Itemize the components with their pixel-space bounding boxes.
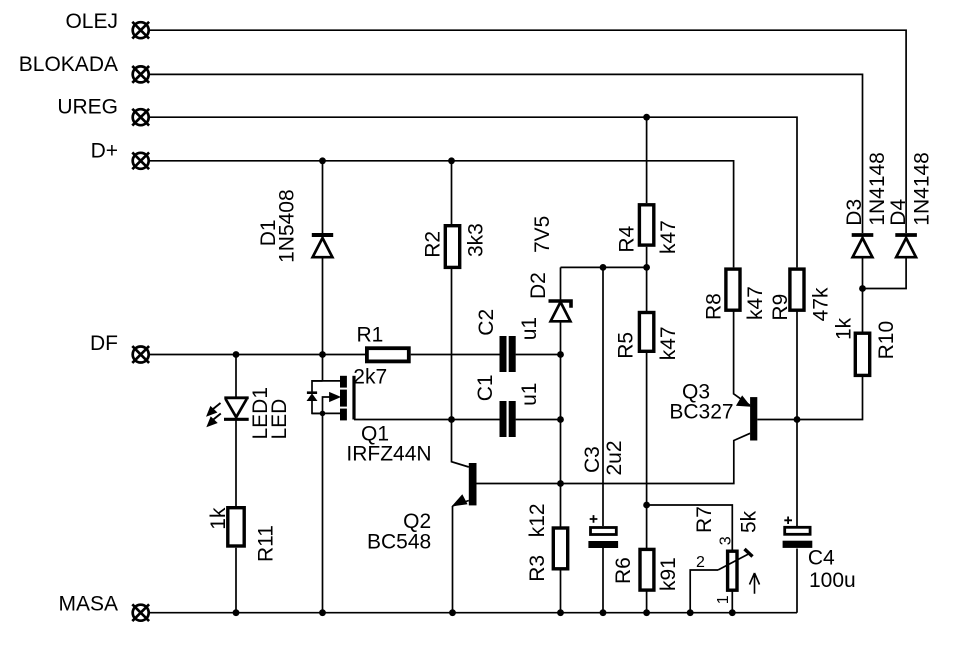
terminal D+ xyxy=(91,139,150,169)
wire Q2 base xyxy=(477,483,561,485)
junction node267 C3 xyxy=(600,264,607,271)
svg-text:D2: D2 xyxy=(527,272,550,299)
terminal UREG xyxy=(57,95,149,125)
svg-text:MASA: MASA xyxy=(58,593,118,616)
wire LED branch vertical xyxy=(235,355,237,613)
junction MASA x732 xyxy=(729,609,736,616)
wire R1 to C2 xyxy=(411,354,500,356)
wire Q2 collector xyxy=(452,420,469,468)
svg-text:1k: 1k xyxy=(833,317,856,340)
svg-text:OLEJ: OLEJ xyxy=(65,10,118,33)
svg-text:D3: D3 xyxy=(843,199,866,226)
junction D+ x322 xyxy=(319,157,326,164)
wire R3 bottom to MASA xyxy=(560,570,562,613)
svg-text:k47: k47 xyxy=(657,326,680,360)
junction Q2 base node xyxy=(557,480,564,487)
svg-text:1k: 1k xyxy=(207,507,230,530)
terminal DF xyxy=(90,332,149,363)
svg-text:R6: R6 xyxy=(612,557,635,584)
svg-text:k47: k47 xyxy=(657,220,680,254)
terminal OLEJ xyxy=(65,10,149,39)
resistor R6 k91 xyxy=(612,549,680,591)
junction MASA x603 xyxy=(600,609,607,616)
wire D+ rail xyxy=(149,161,734,268)
potentiometer R7 5k xyxy=(693,506,761,604)
wire R9 C4 vertical xyxy=(796,312,798,613)
svg-text:k91: k91 xyxy=(657,557,680,591)
electrolytic capacitor C3 2u2 xyxy=(581,440,626,548)
svg-text:7V5: 7V5 xyxy=(531,216,554,253)
wire Q1 source to MASA xyxy=(322,413,324,612)
wire C1 right to node xyxy=(516,419,561,421)
svg-text:R4: R4 xyxy=(616,225,639,252)
wire C2 right to node xyxy=(516,354,561,356)
svg-text:R9: R9 xyxy=(769,294,792,321)
electrolytic capacitor C4 100u xyxy=(783,517,856,593)
svg-text:R7: R7 xyxy=(693,506,716,533)
wire UREG rail xyxy=(149,117,797,267)
LED LED1 xyxy=(207,387,291,440)
svg-text:DF: DF xyxy=(90,332,118,355)
junction D3 D4 anodes xyxy=(859,285,866,292)
junction C2 right xyxy=(557,351,564,358)
junction DF x322 xyxy=(319,351,326,358)
svg-text:D+: D+ xyxy=(91,139,118,162)
svg-text:k12: k12 xyxy=(526,503,549,537)
svg-text:R5: R5 xyxy=(615,332,638,359)
wire BLOKADA rail xyxy=(149,74,863,233)
svg-text:5k: 5k xyxy=(738,510,761,533)
wire pot pin1 to MASA xyxy=(731,592,733,613)
resistor R5 k47 xyxy=(615,313,680,361)
wire R2 branch vertical xyxy=(451,161,453,420)
terminal MASA xyxy=(58,593,149,622)
junction D+ x451 xyxy=(448,157,455,164)
svg-text:C3: C3 xyxy=(581,446,604,473)
svg-text:k47: k47 xyxy=(744,286,767,320)
wire gate lead and C1 left xyxy=(354,419,500,421)
capacitor C1 u1 xyxy=(474,374,541,437)
diode D4 1N4148 xyxy=(887,152,934,257)
svg-text:3k3: 3k3 xyxy=(464,223,487,257)
svg-text:BLOKADA: BLOKADA xyxy=(19,53,118,76)
resistor R4 k47 xyxy=(616,205,680,254)
svg-text:1: 1 xyxy=(715,595,732,604)
svg-text:BC548: BC548 xyxy=(367,531,431,554)
svg-text:C4: C4 xyxy=(808,547,835,570)
svg-text:D4: D4 xyxy=(887,199,910,226)
svg-text:2k7: 2k7 xyxy=(353,365,387,388)
wire Q3 base line xyxy=(757,375,862,420)
svg-text:R11: R11 xyxy=(254,525,277,562)
terminal BLOKADA xyxy=(19,53,149,83)
wire D3 anode to node xyxy=(862,258,864,333)
diode D1 1N5408 xyxy=(257,189,333,263)
svg-text:u1: u1 xyxy=(518,383,541,406)
svg-text:C1: C1 xyxy=(474,374,497,401)
svg-text:1N4148: 1N4148 xyxy=(911,152,934,226)
svg-text:2u2: 2u2 xyxy=(603,440,626,475)
junction UREG x646 xyxy=(643,114,650,121)
capacitor C2 u1 xyxy=(475,309,541,372)
resistor R9 47k xyxy=(769,269,833,321)
junction MASA x646 xyxy=(643,609,650,616)
wire DF rail left xyxy=(149,354,365,356)
svg-text:1N4148: 1N4148 xyxy=(866,152,889,226)
svg-text:UREG: UREG xyxy=(57,95,118,118)
wire pot pin2 to MASA xyxy=(690,570,718,613)
wire R8 to Q3 emitter xyxy=(734,312,751,406)
junction pot line xyxy=(643,502,650,509)
svg-text:47k: 47k xyxy=(810,287,833,321)
svg-text:C2: C2 xyxy=(475,309,498,336)
svg-text:R2: R2 xyxy=(422,231,445,258)
svg-text:LED: LED xyxy=(268,399,291,440)
junction MASA x560 xyxy=(557,609,564,616)
junction MASA x236 xyxy=(233,609,240,616)
transistor Q2 BC548 xyxy=(367,463,477,554)
svg-text:2: 2 xyxy=(696,554,705,571)
junction DF x236 xyxy=(233,351,240,358)
wire pot pin3 line xyxy=(647,505,733,550)
resistor R2 3k3 xyxy=(422,223,488,267)
junction gate C1 left xyxy=(448,416,455,423)
svg-text:IRFZ44N: IRFZ44N xyxy=(346,443,431,466)
junction node267 R4 xyxy=(643,264,650,271)
svg-text:100u: 100u xyxy=(809,569,856,592)
svg-text:3: 3 xyxy=(718,536,735,545)
zener D2 7V5 xyxy=(527,216,571,322)
wire MASA rail xyxy=(149,612,797,614)
junction MASA x690 xyxy=(687,609,694,616)
junction Q1 source xyxy=(320,411,326,417)
wire Q2 emitter to MASA xyxy=(452,506,454,613)
wire node267 rail xyxy=(561,266,647,268)
svg-text:R10: R10 xyxy=(875,321,898,360)
wire D2 branch vertical xyxy=(560,267,562,527)
wire node to Q3 collector xyxy=(561,433,751,483)
junction Q3 base xyxy=(794,416,801,423)
wire D1 branch vertical xyxy=(322,161,324,381)
resistor R3 k12 xyxy=(526,503,568,581)
diode D3 1N4148 xyxy=(843,152,889,257)
mosfet Q1 IRFZ44N xyxy=(307,376,432,466)
resistor R8 k47 xyxy=(703,269,767,320)
svg-text:R3: R3 xyxy=(526,555,549,582)
svg-text:BC327: BC327 xyxy=(669,400,733,423)
svg-text:1N5408: 1N5408 xyxy=(275,189,298,263)
resistor R10 1k xyxy=(833,317,898,375)
resistor R11 1k xyxy=(207,507,277,562)
junction C1 right xyxy=(557,416,564,423)
svg-text:u1: u1 xyxy=(518,317,541,340)
junction MASA x452 xyxy=(449,609,456,616)
svg-text:R1: R1 xyxy=(357,324,384,347)
wire C3 vertical xyxy=(602,267,604,612)
junction MASA x322 xyxy=(319,609,326,616)
wire R4 R5 R6 column xyxy=(646,117,648,613)
resistor R1 2k7 xyxy=(353,324,409,389)
svg-text:R8: R8 xyxy=(703,293,726,320)
wire OLEJ rail xyxy=(149,30,906,233)
transistor Q3 BC327 xyxy=(669,381,757,441)
wire D4 anode to node xyxy=(863,258,907,289)
